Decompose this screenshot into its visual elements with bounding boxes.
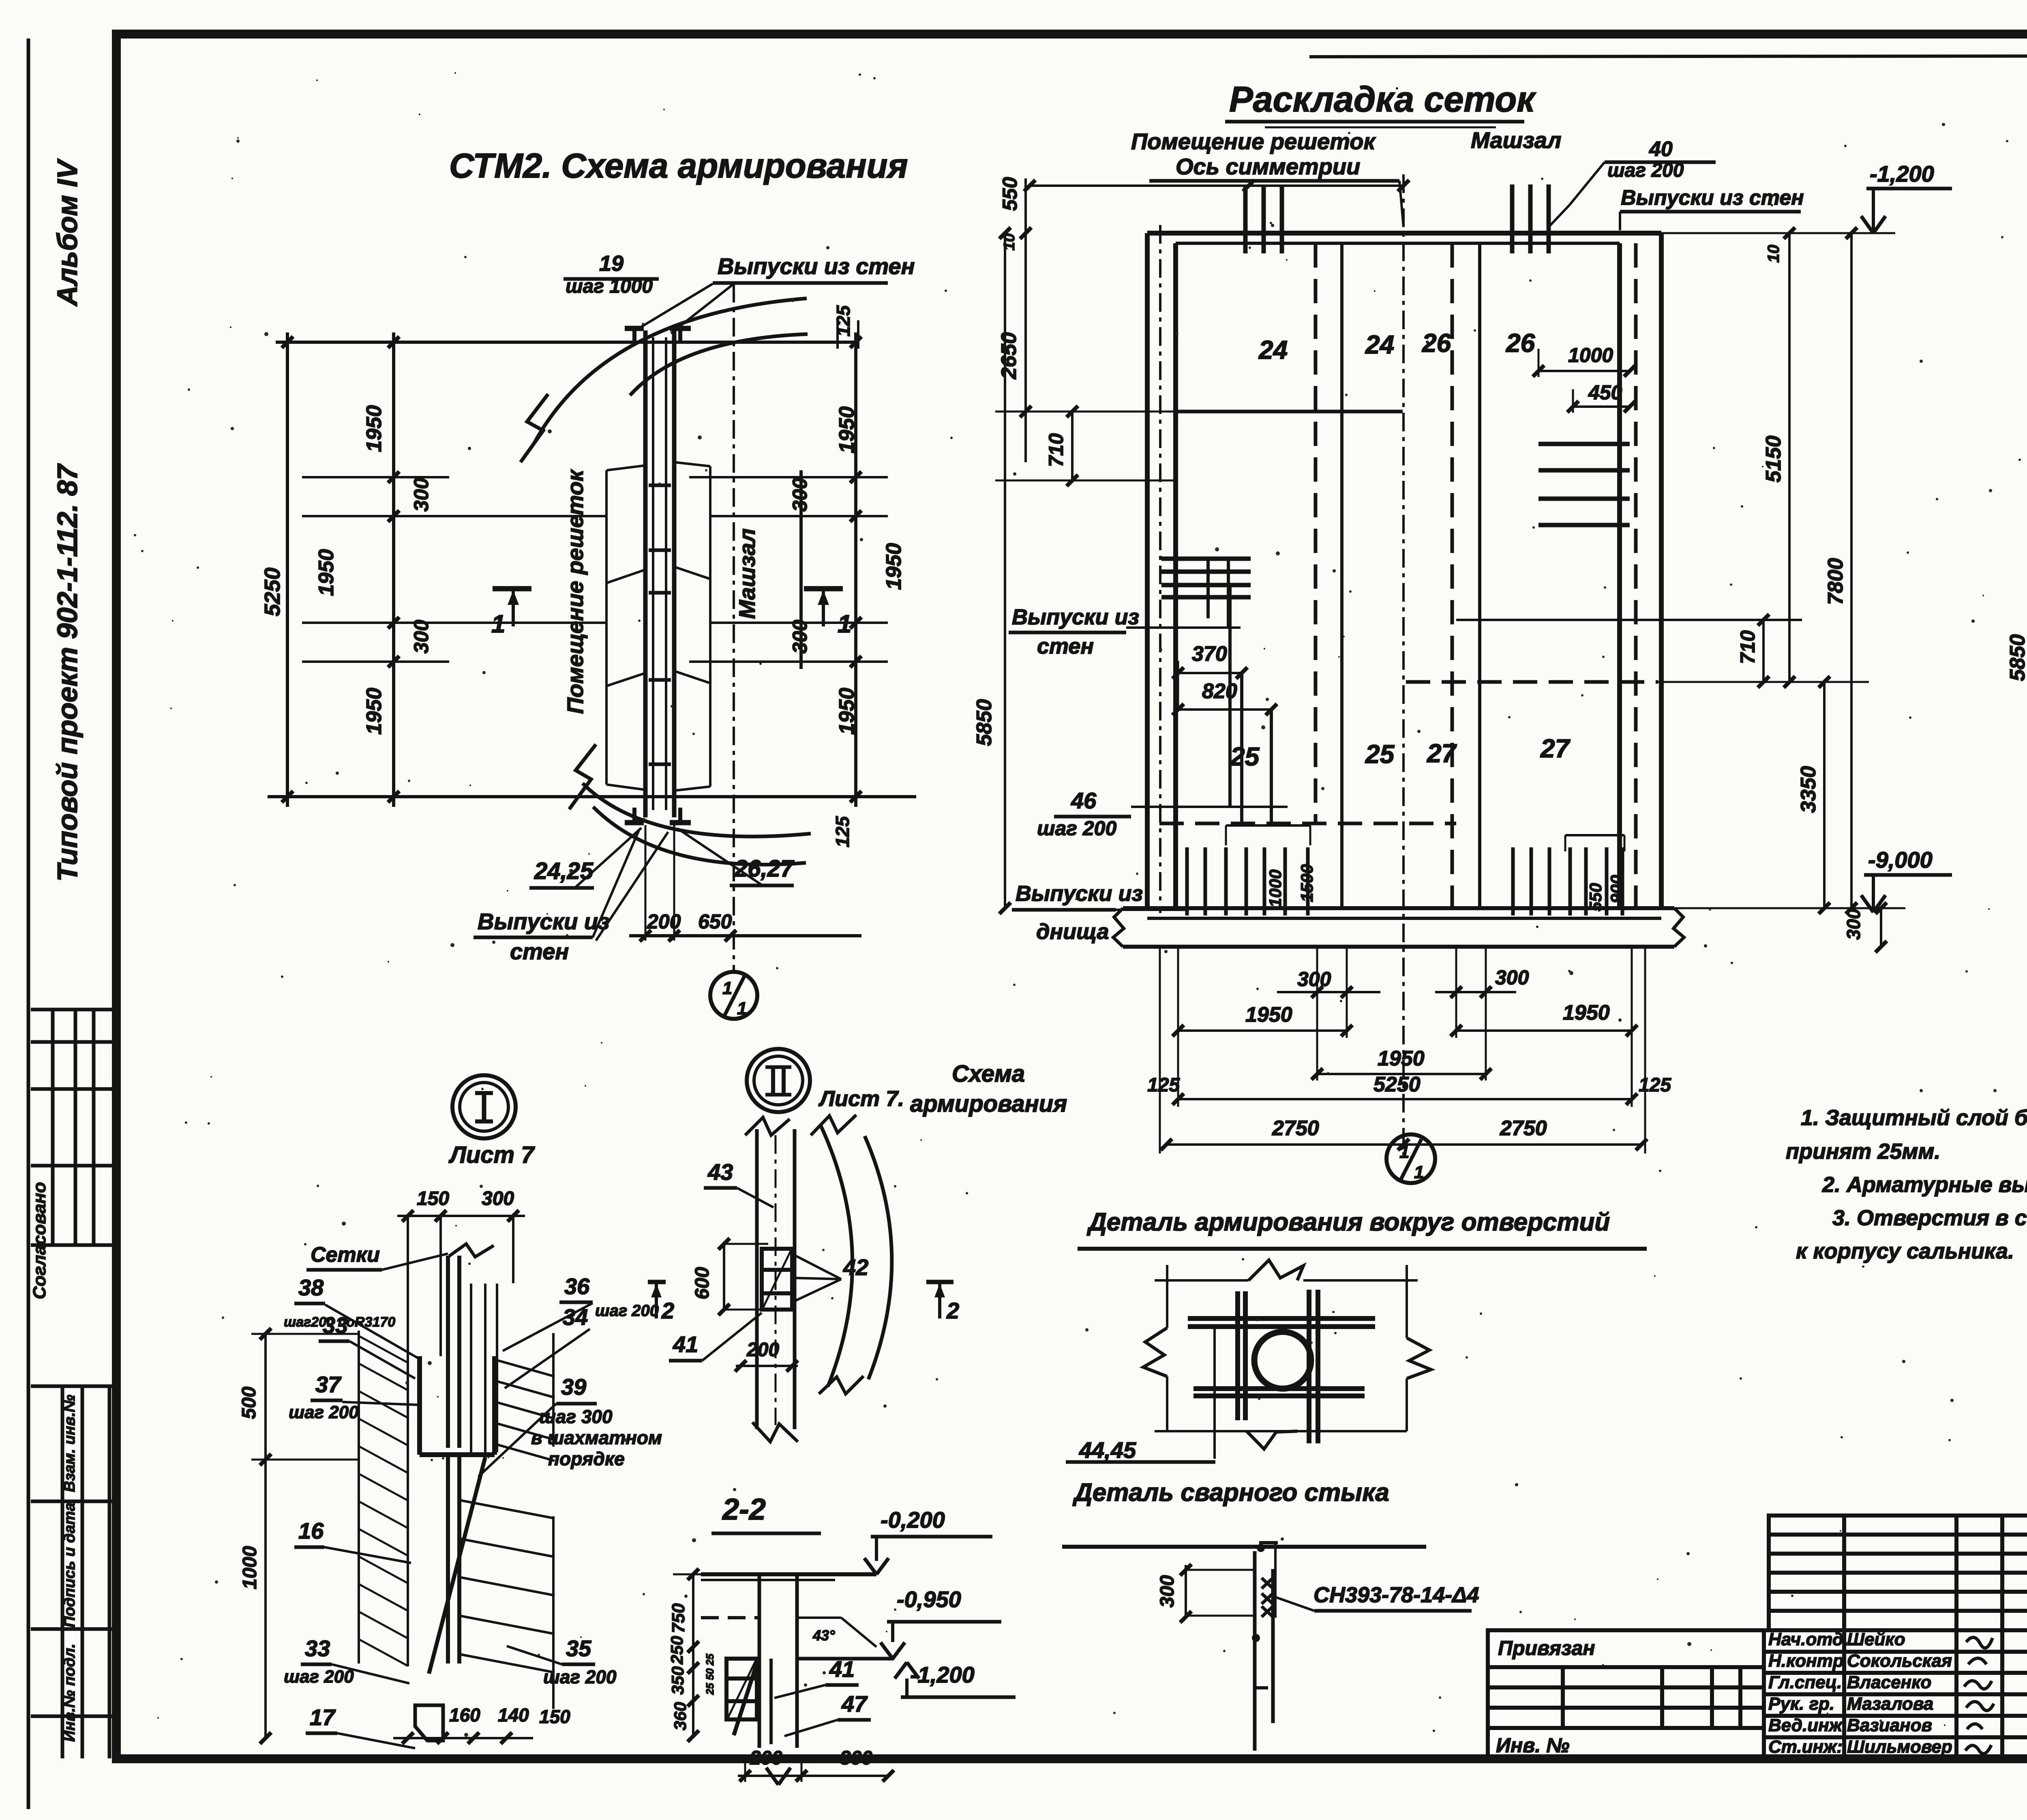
svg-text:125: 125 bbox=[1147, 1074, 1180, 1096]
svg-text:Сокольская: Сокольская bbox=[1847, 1651, 1952, 1671]
svg-text:3350: 3350 bbox=[1797, 766, 1820, 813]
svg-text:1950: 1950 bbox=[362, 688, 386, 735]
svg-text:43°: 43° bbox=[812, 1627, 835, 1644]
svg-text:принят 25мм.: принят 25мм. bbox=[1786, 1139, 1940, 1164]
svg-text:370: 370 bbox=[1192, 642, 1227, 666]
svg-text:1: 1 bbox=[737, 999, 747, 1018]
svg-text:Власенко: Власенко bbox=[1847, 1672, 1931, 1692]
svg-text:300: 300 bbox=[482, 1188, 514, 1209]
svg-text:Выпуски из стен: Выпуски из стен bbox=[1621, 186, 1804, 210]
svg-text:Помещение решеток: Помещение решеток bbox=[1131, 129, 1376, 154]
svg-text:900: 900 bbox=[1607, 875, 1626, 903]
svg-text:1950: 1950 bbox=[362, 405, 386, 452]
svg-text:Схема: Схема bbox=[952, 1061, 1025, 1087]
svg-text:5850: 5850 bbox=[2006, 634, 2027, 681]
svg-text:44,45: 44,45 bbox=[1079, 1437, 1136, 1463]
svg-text:шаг 200: шаг 200 bbox=[1607, 160, 1684, 181]
svg-text:-9,000: -9,000 bbox=[1868, 847, 1933, 872]
svg-text:36: 36 bbox=[564, 1273, 590, 1299]
svg-text:Вед.инж: Вед.инж bbox=[1768, 1715, 1843, 1735]
svg-text:360: 360 bbox=[671, 1702, 690, 1730]
svg-text:Инв.№ подл.: Инв.№ подл. bbox=[61, 1644, 78, 1742]
svg-text:37: 37 bbox=[315, 1372, 342, 1397]
svg-text:Мазалова: Мазалова bbox=[1847, 1694, 1933, 1714]
svg-text:25: 25 bbox=[1365, 740, 1395, 769]
svg-text:Раскладка сеток: Раскладка сеток bbox=[1229, 79, 1536, 119]
svg-text:43: 43 bbox=[707, 1159, 733, 1185]
svg-text:Согласовано: Согласовано bbox=[30, 1182, 49, 1299]
svg-text:Нач.отд.: Нач.отд. bbox=[1768, 1629, 1848, 1649]
svg-text:Гл.спец.: Гл.спец. bbox=[1768, 1672, 1842, 1692]
svg-text:Ось симметрии: Ось симметрии bbox=[1176, 154, 1360, 179]
svg-text:СН393-78-14-Δ4: СН393-78-14-Δ4 bbox=[1313, 1583, 1479, 1607]
svg-text:1: 1 bbox=[722, 978, 732, 998]
svg-text:19: 19 bbox=[599, 251, 624, 276]
svg-text:Выпуски из: Выпуски из bbox=[478, 909, 610, 934]
svg-text:300: 300 bbox=[1297, 968, 1331, 990]
svg-text:46: 46 bbox=[1071, 788, 1097, 813]
svg-text:Деталь сварного стыка: Деталь сварного стыка bbox=[1072, 1479, 1389, 1507]
svg-text:1950: 1950 bbox=[882, 543, 906, 590]
svg-text:300: 300 bbox=[1495, 966, 1529, 989]
svg-text:шаг 200: шаг 200 bbox=[284, 1667, 354, 1687]
svg-text:7800: 7800 bbox=[1824, 558, 1847, 605]
svg-text:1: 1 bbox=[1414, 1162, 1424, 1182]
svg-text:39: 39 bbox=[561, 1374, 586, 1400]
svg-text:Деталь армирования вокруг отв: Деталь армирования вокруг отверстий bbox=[1086, 1208, 1610, 1236]
svg-text:25 50 25: 25 50 25 bbox=[704, 1653, 716, 1695]
svg-text:1950: 1950 bbox=[1245, 1003, 1292, 1027]
svg-text:750: 750 bbox=[669, 1603, 688, 1633]
svg-text:200: 200 bbox=[647, 910, 681, 933]
svg-text:Выпуски из: Выпуски из bbox=[1016, 881, 1143, 906]
svg-text:300: 300 bbox=[789, 620, 811, 654]
svg-text:10: 10 bbox=[1001, 234, 1018, 251]
svg-text:160: 160 bbox=[449, 1704, 480, 1726]
svg-text:27: 27 bbox=[1540, 734, 1571, 763]
svg-text:Машзал: Машзал bbox=[734, 528, 760, 619]
svg-text:40: 40 bbox=[1649, 137, 1673, 161]
svg-text:1000: 1000 bbox=[1266, 870, 1285, 907]
svg-text:2: 2 bbox=[661, 1298, 674, 1323]
svg-text:710: 710 bbox=[1045, 433, 1067, 467]
svg-text:41: 41 bbox=[673, 1331, 698, 1357]
svg-text:10: 10 bbox=[1765, 245, 1783, 263]
svg-text:стен: стен bbox=[1037, 634, 1094, 658]
svg-text:200: 200 bbox=[746, 1339, 779, 1361]
svg-text:350: 350 bbox=[668, 1666, 687, 1695]
svg-text:2750: 2750 bbox=[1500, 1117, 1547, 1140]
svg-text:СТМ2. Схема армирования: СТМ2. Схема армирования bbox=[449, 147, 908, 185]
svg-text:450: 450 bbox=[1588, 381, 1622, 404]
svg-text:-1,200: -1,200 bbox=[1870, 161, 1934, 187]
svg-text:1950: 1950 bbox=[1378, 1047, 1425, 1070]
svg-text:шаг 1000: шаг 1000 bbox=[566, 276, 653, 297]
svg-text:25: 25 bbox=[1230, 742, 1260, 771]
svg-text:150: 150 bbox=[539, 1706, 570, 1727]
svg-text:2. Арматурные выпуски поз.40: 2. Арматурные выпуски поз.40 приварить к… bbox=[1822, 1173, 2027, 1197]
svg-text:16: 16 bbox=[298, 1518, 324, 1543]
svg-text:Вазианов: Вазианов bbox=[1847, 1715, 1932, 1735]
svg-text:1950: 1950 bbox=[315, 549, 338, 596]
svg-text:300: 300 bbox=[410, 478, 433, 512]
svg-text:26: 26 bbox=[1506, 328, 1535, 358]
svg-text:шаг 200: шаг 200 bbox=[289, 1402, 359, 1422]
svg-text:24: 24 bbox=[1258, 335, 1288, 364]
svg-text:-0,200: -0,200 bbox=[881, 1507, 945, 1533]
svg-text:порядке: порядке bbox=[548, 1448, 625, 1469]
svg-text:в шахматном: в шахматном bbox=[531, 1427, 662, 1448]
svg-text:Машзал: Машзал bbox=[1471, 127, 1562, 153]
svg-text:-0,950: -0,950 bbox=[897, 1586, 961, 1612]
svg-text:Инв. №: Инв. № bbox=[1496, 1734, 1569, 1757]
svg-text:1: 1 bbox=[838, 610, 851, 638]
svg-text:33: 33 bbox=[305, 1636, 330, 1661]
svg-text:42: 42 bbox=[843, 1254, 868, 1280]
svg-text:300: 300 bbox=[410, 620, 433, 654]
svg-text:1950: 1950 bbox=[835, 688, 859, 735]
svg-text:Выпуски из: Выпуски из bbox=[1012, 605, 1139, 629]
svg-text:125: 125 bbox=[833, 305, 854, 337]
svg-text:Подпись и дата: Подпись и дата bbox=[61, 1503, 78, 1627]
svg-text:5250: 5250 bbox=[260, 568, 285, 616]
svg-text:Лист 7: Лист 7 bbox=[448, 1142, 535, 1168]
svg-text:к корпусу сальника.: к корпусу сальника. bbox=[1796, 1239, 2014, 1263]
svg-text:Рук. гр.: Рук. гр. bbox=[1768, 1694, 1834, 1714]
svg-text:1: 1 bbox=[491, 610, 505, 638]
svg-text:550: 550 bbox=[1586, 883, 1605, 911]
svg-text:125: 125 bbox=[832, 816, 853, 847]
svg-text:-1,200: -1,200 bbox=[910, 1662, 975, 1687]
svg-text:Н.контр: Н.контр bbox=[1768, 1651, 1844, 1671]
svg-text:Помещение решеток: Помещение решеток bbox=[562, 469, 588, 714]
svg-text:200: 200 bbox=[750, 1747, 782, 1769]
svg-text:1000: 1000 bbox=[239, 1546, 261, 1589]
svg-text:125: 125 bbox=[1639, 1074, 1671, 1096]
svg-text:Шильмовер: Шильмовер bbox=[1847, 1737, 1952, 1757]
svg-text:шаг 200: шаг 200 bbox=[543, 1666, 617, 1687]
svg-text:550: 550 bbox=[999, 177, 1021, 211]
svg-text:500: 500 bbox=[238, 1387, 260, 1419]
svg-text:Привязан: Привязан bbox=[1498, 1637, 1595, 1659]
svg-text:26,27: 26,27 bbox=[734, 855, 795, 882]
svg-text:47: 47 bbox=[841, 1691, 868, 1717]
svg-text:Взам. инв.№: Взам. инв.№ bbox=[61, 1395, 78, 1492]
svg-text:1950: 1950 bbox=[835, 406, 859, 453]
svg-text:140: 140 bbox=[498, 1704, 529, 1726]
svg-text:35: 35 bbox=[566, 1636, 591, 1661]
svg-text:шаг 200: шаг 200 bbox=[1037, 817, 1116, 840]
svg-text:1: 1 bbox=[1399, 1142, 1409, 1162]
svg-text:17: 17 bbox=[310, 1704, 336, 1730]
svg-text:1500: 1500 bbox=[1297, 864, 1316, 902]
svg-text:Выпуски из стен: Выпуски из стен bbox=[718, 253, 915, 279]
svg-text:шаг 200: шаг 200 bbox=[595, 1302, 659, 1320]
svg-text:5150: 5150 bbox=[1762, 435, 1785, 482]
svg-text:2650: 2650 bbox=[997, 332, 1021, 379]
svg-text:Ст.инж:: Ст.инж: bbox=[1768, 1737, 1843, 1757]
svg-text:Шейко: Шейко bbox=[1847, 1629, 1905, 1649]
svg-text:Сетки: Сетки bbox=[311, 1243, 380, 1267]
svg-text:820: 820 bbox=[1202, 680, 1237, 703]
svg-text:38: 38 bbox=[298, 1275, 324, 1300]
svg-text:300: 300 bbox=[789, 478, 811, 512]
svg-text:300: 300 bbox=[840, 1747, 872, 1769]
svg-text:1. Защитный слой бетона для: 1. Защитный слой бетона для рабочей арма… bbox=[1801, 1106, 2027, 1130]
svg-text:5250: 5250 bbox=[1373, 1073, 1421, 1096]
svg-text:Типовой проект 902-1-112. 8: Типовой проект 902-1-112. 87 bbox=[51, 463, 83, 881]
svg-text:710: 710 bbox=[1736, 630, 1759, 664]
svg-text:41: 41 bbox=[829, 1656, 855, 1682]
svg-text:днища: днища bbox=[1036, 920, 1109, 944]
svg-text:2-2: 2-2 bbox=[722, 1492, 766, 1526]
svg-text:Лист 7.: Лист 7. bbox=[818, 1087, 904, 1111]
svg-text:600: 600 bbox=[692, 1267, 713, 1299]
svg-text:5850: 5850 bbox=[973, 699, 996, 746]
svg-text:3. Отверстия в сетках выреза: 3. Отверстия в сетках вырезать по месту.… bbox=[1832, 1206, 2027, 1230]
svg-text:300: 300 bbox=[1157, 1575, 1178, 1608]
svg-text:стен: стен bbox=[510, 939, 569, 964]
svg-text:2750: 2750 bbox=[1272, 1117, 1319, 1140]
svg-text:27: 27 bbox=[1427, 739, 1457, 768]
svg-text:250: 250 bbox=[667, 1636, 686, 1665]
svg-text:24: 24 bbox=[1365, 330, 1394, 359]
svg-text:150: 150 bbox=[417, 1188, 449, 1209]
svg-text:1950: 1950 bbox=[1563, 1001, 1610, 1025]
svg-text:Альбом IV: Альбом IV bbox=[51, 158, 83, 307]
svg-text:650: 650 bbox=[698, 910, 732, 933]
svg-text:1000: 1000 bbox=[1568, 344, 1613, 367]
svg-text:2: 2 bbox=[946, 1298, 959, 1323]
svg-text:армирования: армирования bbox=[910, 1091, 1067, 1117]
